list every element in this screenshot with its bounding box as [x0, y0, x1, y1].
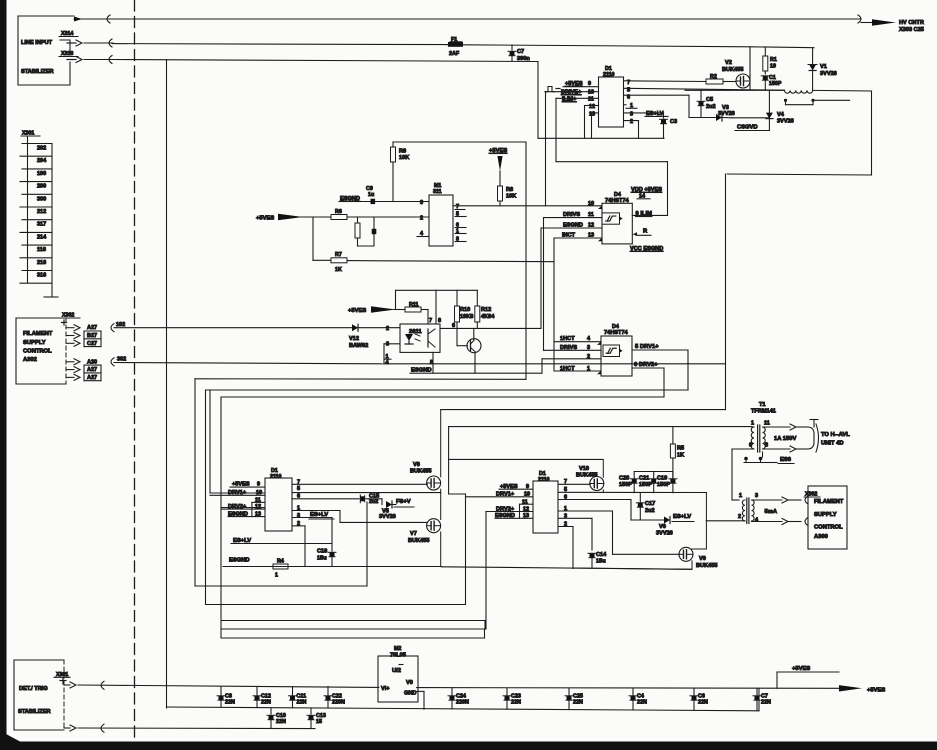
stabilizer LINE INPUT box	[18, 16, 78, 85]
diode V5 BVV26	[379, 499, 414, 520]
capacitor C23 22N	[503, 688, 521, 709]
M1 pin 3	[420, 200, 423, 206]
transistor V9 BUK455	[679, 493, 717, 570]
capacitor C3	[660, 113, 678, 138]
svg-text:V10: V10	[579, 466, 589, 472]
connector X302 right	[804, 492, 820, 498]
resistor R2	[706, 74, 735, 84]
optocoupler 2611	[400, 324, 440, 352]
resistor R6 10K vertical	[391, 147, 410, 202]
svg-text:FILAMENT: FILAMENT	[23, 331, 53, 337]
svg-text:ES+LV: ES+LV	[310, 512, 328, 518]
svg-text:VI+: VI+	[381, 686, 390, 692]
svg-text:BUK455: BUK455	[408, 538, 429, 544]
net ES+LV lower	[231, 538, 332, 544]
D1 pin 12	[585, 104, 599, 138]
A302 pin A27	[66, 373, 101, 381]
D1lr pin 11	[520, 499, 534, 518]
svg-text:C5: C5	[706, 97, 713, 103]
svg-text:1u: 1u	[368, 192, 374, 198]
svg-text:X303 C25: X303 C25	[899, 27, 924, 33]
svg-text:22N: 22N	[297, 700, 307, 706]
wire M2 V0 output	[417, 687, 839, 690]
svg-text:BUK455: BUK455	[410, 469, 431, 475]
svg-text:11: 11	[764, 421, 770, 427]
svg-text:VCC ESGND: VCC ESGND	[630, 246, 663, 252]
page bottom black bar	[6, 734, 937, 750]
connector X361	[54, 672, 70, 684]
svg-text:TFRM141: TFRM141	[751, 409, 776, 415]
transistor V2 BUK455	[722, 48, 750, 90]
capacitor C1 150P	[761, 75, 782, 90]
gate driver D1 2110 lower left	[265, 468, 292, 531]
wire DRV1+ branch lower	[206, 390, 466, 605]
svg-text:202: 202	[37, 146, 46, 152]
T1 primary	[732, 421, 760, 453]
svg-text:10: 10	[588, 201, 594, 207]
svg-text:STABILIZER: STABILIZER	[21, 69, 54, 75]
svg-text:R6: R6	[506, 187, 513, 193]
svg-text:+5VES: +5VES	[792, 666, 810, 672]
net ESGND rail lower	[223, 558, 692, 570]
capacitor C14 15u	[588, 552, 607, 568]
svg-text:2110: 2110	[270, 474, 282, 480]
svg-text:C19: C19	[657, 476, 667, 482]
flip-flop D4 74HST74 bottom	[601, 324, 632, 376]
svg-text:5mA: 5mA	[765, 509, 778, 515]
svg-text:220N: 220N	[332, 700, 345, 706]
svg-text:SUPPLY: SUPPLY	[814, 512, 837, 518]
capacitor C24 220N	[448, 688, 469, 709]
svg-text:C7: C7	[517, 49, 524, 55]
svg-text:204: 204	[37, 158, 47, 164]
svg-text:V6: V6	[659, 524, 666, 530]
svg-text:3VV26: 3VV26	[379, 514, 396, 520]
svg-text:TO H--AVL: TO H--AVL	[821, 432, 850, 438]
D4 pin 13 INCT	[554, 233, 602, 372]
wire ESGND to M1 pin3	[339, 196, 429, 202]
D4 pin 10	[588, 201, 602, 209]
D1ll pin 7 wire V8 gate	[292, 480, 427, 486]
D1 pin 7 wire to R2	[624, 80, 707, 86]
diode V6 BVV26 ES+LV	[656, 514, 694, 537]
wire T2 pin3 to X302	[752, 496, 809, 504]
A302 pin C27	[66, 339, 101, 347]
M1 pin stubs 5 6 1 8	[455, 212, 466, 243]
svg-text:10K: 10K	[399, 155, 409, 161]
net VDD +5VES pin 14	[631, 187, 662, 200]
svg-text:CSGVD: CSGVD	[737, 125, 758, 131]
svg-text:302: 302	[117, 357, 126, 363]
svg-text:R7: R7	[335, 252, 342, 258]
D1lr pin 7 wire V10 gate	[558, 479, 590, 485]
wire T1 primary link	[732, 449, 739, 500]
D1 pin 5 wire rail	[624, 88, 785, 94]
wire right drop	[727, 91, 871, 175]
svg-text:ES6: ES6	[780, 457, 792, 463]
svg-text:R12: R12	[481, 307, 491, 313]
svg-text:22N: 22N	[276, 719, 286, 725]
svg-text:214: 214	[37, 234, 47, 240]
transformer primary coil	[685, 90, 872, 93]
transistor V7 BUK455	[408, 493, 441, 567]
capacitor C12 22N	[253, 687, 271, 708]
svg-text:2AF: 2AF	[449, 51, 460, 57]
D1ll pin 11	[252, 498, 265, 517]
svg-text:+5VES: +5VES	[348, 308, 366, 314]
svg-text:8: 8	[438, 318, 441, 324]
svg-text:C17: C17	[645, 501, 655, 507]
svg-text:+5VES: +5VES	[565, 81, 583, 87]
svg-text:7: 7	[429, 318, 432, 324]
D1lr pin 5 wire	[558, 487, 706, 493]
wire x526 vertical	[525, 142, 527, 379]
resistor R5 1K	[670, 427, 684, 472]
svg-text:2110: 2110	[538, 477, 550, 483]
capacitor C21 150P	[639, 472, 658, 493]
svg-text:11: 11	[588, 97, 594, 103]
A302 pin B27	[66, 331, 101, 347]
svg-text:A27: A27	[87, 375, 97, 381]
svg-text:2: 2	[386, 326, 389, 332]
capacitor C13 15	[307, 708, 326, 728]
svg-text:150P: 150P	[657, 482, 670, 488]
D1lr pin 12 DRV2+	[486, 506, 533, 512]
D4b pin 3 DRIVS	[544, 345, 602, 351]
opto pin 8	[438, 318, 441, 324]
svg-text:2u2: 2u2	[369, 499, 378, 505]
svg-text:116: 116	[37, 247, 46, 253]
capacitor bus top	[634, 471, 673, 473]
wire line feed down	[441, 174, 726, 410]
svg-text:150P: 150P	[639, 482, 652, 488]
opto pin 6 collector wire	[440, 323, 541, 329]
svg-text:22N: 22N	[637, 700, 647, 706]
svg-text:C21: C21	[639, 476, 649, 482]
svg-text:V12: V12	[349, 336, 359, 342]
svg-text:74HST74: 74HST74	[605, 198, 630, 204]
wire net 302	[111, 357, 384, 366]
capacitor C17 2u2	[636, 493, 655, 520]
svg-text:1HCT: 1HCT	[560, 336, 575, 342]
connector X302 left	[61, 313, 80, 326]
svg-text:1: 1	[751, 421, 754, 427]
svg-text:C27: C27	[87, 341, 97, 347]
+5VES feed arrow opto	[348, 306, 405, 314]
svg-text:V9: V9	[699, 556, 706, 562]
D1ll pin 13 ESGND	[228, 511, 265, 517]
D4 pin 11 DRIVS	[544, 212, 603, 350]
svg-text:300: 300	[37, 196, 46, 202]
connector X314	[67, 40, 82, 46]
capacitor C22 220N	[324, 687, 345, 709]
svg-text:BAW62: BAW62	[349, 343, 368, 349]
svg-text:U/2: U/2	[392, 668, 401, 674]
svg-text:3: 3	[420, 200, 423, 206]
svg-text:3: 3	[386, 342, 389, 348]
resistor R7 1K	[331, 252, 554, 273]
transistor Q opto	[467, 328, 481, 373]
D1lr pin 13 ESGND	[495, 513, 533, 519]
svg-text:15: 15	[316, 719, 322, 725]
svg-text:1A 150V: 1A 150V	[774, 436, 796, 442]
capacitor C20 150P	[619, 472, 638, 493]
svg-text:BUK455: BUK455	[696, 563, 717, 569]
wire T2 pin2	[706, 520, 745, 522]
svg-text:150P: 150P	[619, 482, 632, 488]
svg-text:V4: V4	[777, 112, 785, 118]
svg-text:22N: 22N	[261, 700, 271, 706]
svg-text:1K: 1K	[677, 453, 684, 459]
svg-text:STABILIZER: STABILIZER	[18, 709, 51, 715]
gate driver D1 2110 top	[599, 66, 624, 127]
svg-text:2u2: 2u2	[706, 104, 716, 110]
D1ll pin 3 wire ES+LV	[292, 512, 334, 519]
D1lr pin 9 +5VES	[499, 484, 533, 490]
M1 pin 7 wire to D4 pin10	[453, 204, 602, 210]
X361 row 1	[64, 681, 379, 689]
capacitor C5 2u2	[697, 90, 716, 118]
svg-text:317: 317	[37, 222, 46, 228]
svg-text:VDD +5VES: VDD +5VES	[631, 187, 662, 193]
D1ll pin 9 +5VES	[230, 482, 265, 488]
label TO H-AVL UNIT 4D	[821, 432, 850, 447]
D1ll pin 6 wire C15	[292, 494, 359, 500]
svg-text:10K: 10K	[506, 194, 516, 200]
D4b pin 5 DRV1+ wire	[206, 344, 689, 493]
wire cap bus bottom	[672, 472, 674, 482]
opto pin 5 ESGND	[410, 352, 542, 373]
svg-text:A30: A30	[87, 359, 97, 365]
gate driver D1 2110 lower right	[533, 471, 558, 533]
wire bottom rail lower right	[573, 568, 692, 569]
T1 secondary	[763, 421, 791, 450]
svg-text:3VV26: 3VV26	[718, 111, 735, 117]
svg-text:V8: V8	[413, 462, 420, 468]
D4b pin 2	[542, 354, 601, 373]
capacitor C15 2u2	[360, 493, 382, 505]
svg-text:3VV26: 3VV26	[820, 71, 837, 77]
winding ES6	[744, 452, 794, 464]
diode V12 BAW62	[349, 324, 368, 349]
svg-text:22N: 22N	[225, 700, 235, 706]
opto pin 2	[386, 326, 389, 332]
sense winding	[784, 99, 850, 105]
svg-text:3: 3	[297, 513, 300, 519]
wire R6 top to routing	[393, 142, 526, 147]
opto pin 3	[384, 342, 400, 364]
transformer T2 5mA	[738, 493, 778, 524]
D1 pin 1 stub	[624, 103, 638, 109]
transistor V8 BUK455	[410, 410, 441, 493]
M1 pin 4	[417, 231, 429, 237]
svg-text:FS+V: FS+V	[396, 499, 411, 505]
svg-text:A27: A27	[87, 325, 97, 331]
D1 pin 13	[589, 112, 599, 139]
svg-text:BUK455: BUK455	[576, 473, 597, 479]
transistor V10 BUK455	[576, 459, 604, 492]
wire ESGND mid	[195, 379, 526, 586]
svg-text:15u: 15u	[317, 556, 327, 562]
svg-text:C16: C16	[317, 549, 327, 555]
svg-text:R2: R2	[710, 74, 717, 80]
resistor R4 1	[273, 559, 288, 579]
svg-text:R5: R5	[677, 446, 684, 452]
capacitor C25 22N	[565, 688, 583, 709]
+5VES feed arrow left	[256, 214, 331, 222]
svg-text:ESGND: ESGND	[229, 558, 250, 564]
svg-text:6 DRV2+: 6 DRV2+	[634, 362, 658, 368]
svg-text:216: 216	[37, 260, 46, 266]
net VCC ESGND	[630, 246, 663, 252]
D1ll pin 10 DRV1+	[210, 490, 265, 496]
capacitor C19 150P	[657, 472, 677, 493]
D1 pin 11 ILIM+	[556, 97, 668, 216]
svg-text:B27: B27	[87, 333, 97, 339]
svg-text:150P: 150P	[769, 81, 782, 87]
D1 pin 9 +5VES	[563, 81, 599, 87]
svg-text:ESGND: ESGND	[411, 368, 432, 374]
resistor R12 4K64	[475, 306, 495, 328]
svg-text:22N: 22N	[511, 700, 521, 706]
svg-text:15u: 15u	[596, 559, 606, 565]
opto pins 1 4	[384, 354, 391, 366]
svg-text:V7: V7	[410, 531, 417, 537]
connector X316	[67, 57, 82, 63]
svg-text:2110: 2110	[603, 72, 615, 78]
opto pin 7	[429, 318, 432, 324]
wire DRV2+ branch lower	[221, 512, 486, 639]
svg-text:UNIT 4D: UNIT 4D	[821, 441, 844, 447]
svg-text:V1: V1	[820, 64, 827, 70]
svg-text:C3: C3	[670, 119, 677, 125]
svg-text:9 ILIM: 9 ILIM	[636, 211, 653, 217]
svg-text:220N: 220N	[456, 700, 469, 706]
capacitor C4 22N	[629, 688, 647, 710]
wire HV top	[74, 15, 861, 23]
svg-text:3VV26: 3VV26	[777, 119, 794, 125]
svg-text:102: 102	[116, 322, 125, 328]
svg-text:1K: 1K	[335, 267, 342, 273]
svg-text:3VV26: 3VV26	[656, 531, 673, 537]
svg-text:12: 12	[589, 104, 595, 110]
A302 pin A27	[66, 365, 101, 381]
svg-text:5: 5	[297, 486, 300, 492]
filament supply control A300 box	[808, 486, 847, 549]
wire 302 bus right	[384, 363, 726, 365]
wire X314 line	[84, 39, 814, 48]
svg-text:M2: M2	[394, 646, 401, 652]
wire +5VES to R7	[313, 217, 331, 260]
svg-text:200: 200	[37, 184, 46, 190]
svg-text:+5VES: +5VES	[489, 148, 507, 154]
det trig stabilizer box	[14, 660, 64, 730]
D4 R pin stub	[632, 229, 651, 236]
svg-text:74HST74: 74HST74	[604, 330, 629, 336]
svg-text:5 DRV1+: 5 DRV1+	[635, 344, 659, 350]
svg-text:V2: V2	[725, 60, 732, 66]
D1lr pin 1 wire V9 gate	[558, 506, 680, 554]
resistor R11	[405, 302, 428, 324]
resistor R6 horizontal	[331, 209, 429, 220]
svg-text:22N: 22N	[761, 700, 771, 706]
svg-text:CONTROL: CONTROL	[23, 349, 52, 355]
wire long vertical from X316	[166, 60, 168, 709]
filament supply control A302 box	[16, 318, 66, 384]
diode V4 BVV26	[766, 90, 794, 130]
D1ll pin 1 wire V7 gate	[292, 505, 427, 522]
wire bottom rail	[167, 688, 760, 711]
svg-text:311: 311	[433, 189, 442, 195]
wire net 102	[111, 322, 400, 332]
wire opto top bus	[396, 290, 478, 324]
D4b pin 6 DRV2+ wire	[221, 362, 664, 638]
svg-text:SUPPLY: SUPPLY	[23, 340, 46, 346]
M1 pin 2	[420, 216, 423, 222]
svg-text:9: 9	[588, 81, 591, 87]
svg-text:R6: R6	[335, 209, 342, 215]
svg-text:CONTROL: CONTROL	[814, 525, 843, 531]
wire routing U	[222, 621, 485, 630]
svg-text:T1: T1	[759, 402, 766, 408]
D1lr pin 6 wire C17 V6	[558, 494, 664, 520]
capacitor C10 22N	[267, 708, 286, 728]
capacitor C8 22N	[217, 687, 235, 708]
svg-text:316: 316	[37, 273, 46, 279]
regulator M2 79L05	[378, 646, 418, 702]
capacitor C6 22N	[690, 688, 708, 710]
transformer T1 TFRM141	[751, 402, 776, 415]
svg-text:DET./ TRIG: DET./ TRIG	[19, 686, 48, 692]
svg-text:ES+LV: ES+LV	[673, 514, 691, 520]
net CSGVD	[735, 125, 769, 131]
svg-text:GND: GND	[404, 691, 416, 697]
svg-text:3: 3	[755, 493, 758, 499]
svg-text:10: 10	[770, 64, 776, 70]
D4b pin 4 1HCT	[554, 336, 601, 345]
op-amp M1 311 box	[429, 183, 453, 246]
node divider resistor	[355, 217, 374, 246]
fuse F1	[446, 37, 463, 57]
D4b pin 1 1HCT	[554, 366, 601, 374]
svg-text:2: 2	[738, 514, 741, 520]
capacitor C11 22N	[289, 687, 307, 708]
D1lr pin 3 wire	[558, 513, 592, 550]
svg-text:R4: R4	[277, 559, 284, 565]
svg-text:A27: A27	[87, 367, 97, 373]
svg-text:HV CNTR: HV CNTR	[899, 20, 924, 26]
D1ll pin 5 wire	[292, 486, 441, 493]
D1lr pin 2 wire	[558, 522, 573, 569]
capacitor C7 22N	[753, 688, 771, 710]
pulse waveform symbol	[545, 87, 560, 92]
svg-text:2u2: 2u2	[645, 508, 655, 514]
svg-text:22N: 22N	[573, 700, 583, 706]
flip-flop D4 74HST74 top	[602, 192, 632, 244]
svg-text:4K64: 4K64	[481, 314, 495, 320]
svg-text:A300: A300	[814, 534, 828, 540]
svg-text:+5VES: +5VES	[867, 688, 885, 694]
svg-text:ILIM+: ILIM+	[562, 97, 577, 103]
svg-text:LINE INPUT: LINE INPUT	[21, 40, 53, 46]
svg-text:FILAMENT: FILAMENT	[814, 499, 844, 505]
svg-text:100: 100	[37, 171, 46, 177]
svg-text:1: 1	[739, 493, 742, 499]
resistor R6 10K pullup	[498, 186, 517, 206]
capacitor C16 15u	[317, 518, 336, 567]
wire T2 pin4 to X302	[752, 518, 809, 526]
svg-text:390n: 390n	[517, 56, 530, 62]
